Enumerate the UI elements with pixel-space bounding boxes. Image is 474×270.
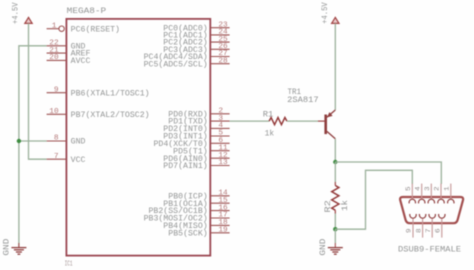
connector DSUB9-FEMALE shell (398, 197, 463, 255)
IC1 pin 2 PD0(RXD) (168, 108, 229, 120)
svg-text:PB7(XTAL2/TOSC2): PB7(XTAL2/TOSC2) (71, 110, 150, 120)
svg-text:GND: GND (319, 238, 328, 255)
DSUB9 pin 3 (424, 184, 435, 204)
svg-text:PC5(ADC5/SCL): PC5(ADC5/SCL) (144, 59, 208, 69)
ground symbol GND (right) (319, 229, 343, 255)
wire R1 to TR1 base (287, 120, 318, 122)
svg-text:MEGA8-P: MEGA8-P (67, 7, 107, 16)
resistor R1 (263, 111, 287, 139)
svg-text:R2: R2 (324, 200, 333, 213)
transistor TR1 2SA817 (PNP) (287, 88, 335, 139)
IC1 pin 4 PD2(INT0) (163, 122, 229, 134)
svg-text:9: 9 (406, 228, 414, 233)
svg-text:AVCC: AVCC (71, 57, 91, 66)
IC1 pin 3 PD1(TXD) (168, 115, 229, 127)
DSUB9 pin 5 (405, 184, 416, 204)
svg-text:7: 7 (54, 153, 59, 161)
svg-text:PB6(XTAL1/TOSC1): PB6(XTAL1/TOSC1) (71, 88, 150, 98)
svg-text:10: 10 (49, 108, 59, 116)
wire junction to IC1 pin 8 GND (19, 140, 47, 142)
svg-text:28: 28 (218, 57, 228, 65)
svg-text:20: 20 (49, 54, 59, 62)
DSUB9 pin 2 (434, 184, 445, 204)
svg-text:PD7(AIN1): PD7(AIN1) (163, 161, 207, 171)
IC IC1 MEGA8-P body (65, 7, 211, 269)
wire node to R2 top (334, 162, 336, 182)
DSUB9 pin 9 (406, 214, 417, 238)
wire R2 bottom to ground node (334, 214, 336, 230)
svg-text:6: 6 (435, 228, 443, 233)
svg-text:7: 7 (425, 228, 433, 233)
wire TR1 collector down to node (334, 139, 336, 162)
IC1 pin 10 PB7(XTAL2/TOSC2) (47, 108, 150, 120)
IC1 pin 6 PD4(XCK/T0) (154, 137, 230, 149)
IC1 pin 28 PC5(ADC5/SCL) (144, 57, 230, 69)
IC1 pin 5 PD3(INT1) (163, 130, 229, 142)
wire +4.5V to IC1 pin 7 VCC (29, 23, 47, 159)
IC1 pin 7 VCC (47, 153, 86, 165)
IC1 pin 14 PB0(ICP) (168, 190, 229, 202)
svg-text:DSUB9-FEMALE: DSUB9-FEMALE (398, 246, 461, 255)
junction dot collector node (333, 160, 337, 164)
DSUB9 pin 7 (425, 214, 436, 238)
IC1 pin 1 PC6(RESET) (47, 22, 120, 34)
svg-text:2: 2 (434, 186, 442, 191)
DSUB9 pin 8 (415, 214, 426, 238)
svg-text:13: 13 (218, 159, 228, 167)
svg-text:2SA817: 2SA817 (287, 96, 319, 105)
svg-text:R1: R1 (263, 111, 274, 120)
IC1 pin 19 PB5(SCK) (168, 227, 229, 239)
supply +4.5V (right) (321, 2, 339, 24)
IC1 pin 15 PB1(OC1A) (163, 197, 229, 209)
IC1 pin 12 PD6(AIN0) (163, 152, 229, 164)
IC1 pin 11 PD5(T1) (173, 144, 229, 156)
svg-text:4: 4 (414, 186, 422, 191)
IC1 pin 17 PB3(MOSI/OC2) (144, 212, 230, 224)
IC1 pin 16 PB2(SS/OC1B) (149, 204, 230, 216)
svg-text:+4.5V: +4.5V (11, 2, 20, 24)
IC1 pin 20 AVCC (47, 54, 91, 66)
svg-text:+4.5V: +4.5V (321, 2, 330, 24)
IC1 pin 13 PD7(AIN1) (163, 159, 229, 171)
IC1 pin 26 PC3(ADC3) (163, 43, 229, 55)
IC1 pin 8 GND (47, 135, 86, 147)
wire +4.5V to TR1 emitter (334, 23, 336, 110)
svg-text:GND: GND (3, 238, 12, 255)
wire collector node to DSUB9 pin 2 (335, 162, 441, 184)
svg-text:1k: 1k (265, 129, 275, 139)
svg-text:1: 1 (52, 22, 57, 30)
svg-text:19: 19 (218, 227, 228, 235)
svg-text:9: 9 (54, 86, 59, 94)
svg-text:8: 8 (54, 135, 59, 143)
IC1 pin 24 PC1(ADC1) (163, 29, 229, 41)
svg-text:GND: GND (71, 138, 86, 147)
DSUB9 pin 4 (414, 184, 425, 204)
svg-text:8: 8 (415, 228, 423, 233)
IC1 pin 27 PC4(ADC4/SDA) (144, 50, 230, 62)
svg-text:PC6(RESET): PC6(RESET) (71, 24, 120, 34)
IC1 pin 23 PC0(ADC0) (163, 21, 229, 33)
junction dot ground node (333, 227, 337, 231)
svg-text:IC1: IC1 (65, 260, 73, 268)
IC1 pin 18 PB4(MISO) (163, 219, 229, 231)
svg-text:1: 1 (444, 186, 452, 191)
svg-text:1k: 1k (340, 200, 350, 211)
wire IC1 pin 3 TXD to R1 (230, 120, 270, 122)
IC1 pin 21 AREF (47, 47, 91, 59)
svg-text:3: 3 (424, 186, 432, 191)
wire IC1 pin 22 GND to ground rail (19, 46, 47, 247)
resistor R2 (324, 182, 350, 214)
IC1 pin 22 GND (47, 40, 86, 52)
IC1 pin 25 PC2(ADC2) (163, 36, 229, 48)
DSUB9 pin 6 (435, 214, 446, 238)
DSUB9 pin 1 (444, 184, 455, 204)
junction dot on ground rail (17, 139, 21, 143)
svg-text:5: 5 (405, 186, 413, 191)
svg-text:PB5(SCK): PB5(SCK) (168, 228, 207, 238)
ground symbol GND (left) (3, 238, 27, 255)
IC1 pin 9 PB6(XTAL1/TOSC1) (47, 86, 150, 98)
svg-text:VCC: VCC (71, 156, 86, 165)
wire ground node to DSUB9 pin 5 (335, 170, 412, 229)
supply +4.5V (left) (11, 2, 32, 24)
